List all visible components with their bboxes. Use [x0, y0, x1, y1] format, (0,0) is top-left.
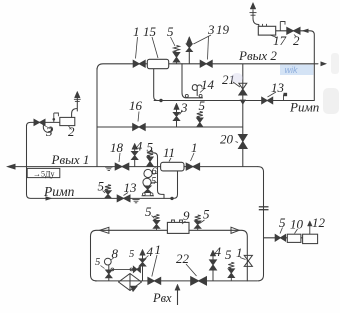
- label 5 leader: [200, 220, 205, 224]
- relief valve 5 left of meter: [154, 215, 160, 221]
- relief valve 5 middle: [197, 112, 203, 118]
- label 8 leader: [111, 258, 114, 261]
- filter: [119, 274, 142, 291]
- wire regulator 11 drop: [174, 171, 178, 198]
- svg-text:5: 5: [151, 176, 156, 187]
- drain after valve 13: [132, 200, 139, 203]
- svg-text:wik: wik: [285, 65, 298, 75]
- valve 3 top left: [34, 119, 45, 125]
- label 10 leader: [295, 229, 298, 234]
- node junction lower Rimp: [170, 197, 173, 200]
- svg-text:8: 8: [112, 246, 119, 261]
- svg-text:18: 18: [110, 140, 124, 155]
- svg-text:Рвх: Рвх: [152, 291, 172, 305]
- device 12: [303, 234, 318, 243]
- label 22 leader: [186, 264, 197, 276]
- gauge 8 stem: [108, 265, 110, 281]
- three-way cock: [53, 113, 55, 122]
- valve 1 top inlet: [133, 60, 145, 67]
- relief valve 5 on Pvyh1: [147, 151, 153, 157]
- valve 22: [191, 277, 207, 285]
- svg-text:4: 4: [215, 244, 222, 259]
- svg-text:5: 5: [147, 140, 154, 155]
- svg-text:1: 1: [155, 242, 162, 257]
- pressure gauge 2 box: [60, 117, 75, 125]
- label 9 leader: [182, 221, 186, 224]
- svg-text:2: 2: [68, 124, 75, 139]
- node flow arrow into valve 2: [302, 29, 309, 33]
- wire right drop from Pvyh1 line: [258, 167, 264, 281]
- gauge 8 valve: [106, 270, 112, 278]
- svg-text:1: 1: [236, 245, 243, 260]
- wire manometer branch: [27, 122, 61, 126]
- label 5 leader: [171, 37, 176, 46]
- relief valve 5 lower Rimp: [105, 185, 111, 191]
- wire vertical valve21-20 branch: [242, 64, 244, 167]
- svg-text:20: 20: [220, 132, 234, 147]
- svg-text:5: 5: [98, 179, 105, 194]
- valve 1 middle: [186, 163, 199, 170]
- inlet Rvx arrow: [177, 289, 179, 306]
- wire Pvyh2 main line: [97, 64, 318, 70]
- relief valve 5 right of meter: [195, 215, 201, 221]
- wire bottom loop left vertical and top line: [91, 230, 248, 281]
- svg-text:Рвых 1: Рвых 1: [51, 152, 90, 167]
- svg-text:5: 5: [203, 207, 210, 222]
- svg-text:17: 17: [273, 33, 287, 48]
- label 20 leader: [236, 142, 239, 143]
- svg-text:5: 5: [167, 24, 174, 39]
- wire vertical regulator-15 drop: [154, 69, 158, 101]
- impulse down from relief to gauges: [152, 153, 164, 199]
- label 2 leader: [294, 35, 297, 38]
- label 1 leader: [136, 37, 138, 59]
- wire vent to device 17: [253, 19, 259, 27]
- label 16 leader: [138, 112, 139, 122]
- device 10: [287, 234, 301, 242]
- svg-text:Римп: Римп: [289, 100, 319, 115]
- gauge cluster unions: [142, 193, 145, 196]
- svg-text:5: 5: [199, 98, 206, 113]
- vent stack top right: [252, 10, 254, 19]
- label 1 leader: [191, 153, 195, 161]
- svg-text:16: 16: [129, 98, 143, 113]
- wire Pvyh1 main line: [10, 166, 258, 168]
- vent valve 3 middle: [176, 109, 178, 127]
- label 17 leader: [270, 35, 277, 38]
- label 2 leader: [69, 126, 72, 130]
- node Pvyh1 outlet arrow left: [6, 164, 16, 170]
- vent valve 4 on Pvyh1: [134, 149, 136, 167]
- svg-text:4: 4: [136, 139, 143, 154]
- label 3 leader middle: [180, 111, 183, 115]
- label 14 leader: [200, 88, 205, 93]
- flow tag box 5Du: [27, 168, 60, 177]
- relief valve 5 on Pvyh2: [174, 46, 180, 53]
- label 13 leader: [124, 193, 129, 196]
- label 3 leader: [43, 125, 51, 129]
- insulating joint: [259, 206, 269, 208]
- svg-text:3: 3: [207, 22, 215, 37]
- valve 1 on right drop: [244, 255, 252, 266]
- svg-text:5: 5: [95, 257, 100, 268]
- svg-text:5: 5: [225, 247, 232, 262]
- node flow arrow on lower Rimp: [46, 196, 53, 200]
- label 5 leader: [280, 228, 283, 234]
- label 1 leader: [240, 258, 246, 260]
- valve 2: [287, 27, 300, 34]
- valve 20: [238, 135, 247, 149]
- valve 16: [133, 124, 146, 131]
- svg-text:1: 1: [133, 24, 140, 39]
- node flow arrow right on bypass: [231, 227, 239, 233]
- meter 9: [167, 222, 189, 233]
- vent stack bottom: [142, 255, 144, 281]
- valve 13 left: [117, 195, 130, 202]
- gauge 5 lower: [143, 178, 151, 186]
- svg-text:1: 1: [191, 140, 198, 155]
- wire vertical from Pvyh2 corner down to Pvyh1 line: [96, 68, 98, 167]
- node Pvyh2 outlet arrow: [321, 61, 328, 66]
- node flow arrow left on bypass: [100, 227, 109, 233]
- svg-text:→5Ду: →5Ду: [33, 169, 54, 178]
- wire bypass line through valve 16: [97, 126, 243, 128]
- device 14 siphon curl: [192, 85, 202, 96]
- impulse tube to device 14: [182, 64, 203, 98]
- label 1 leader: [152, 255, 157, 277]
- vent line with valve 3: [188, 48, 190, 64]
- node junction on Rimp upper: [159, 99, 162, 102]
- valve 5 on branch: [275, 235, 285, 242]
- regulator 11: [161, 162, 184, 171]
- label 18 leader: [119, 153, 120, 162]
- sampling cock after valve 13: [283, 95, 285, 101]
- svg-text:3: 3: [180, 100, 188, 115]
- label 3 leader: [194, 35, 212, 44]
- svg-text:22: 22: [176, 251, 190, 266]
- vent head ticks: [74, 98, 81, 100]
- regulator 15: [147, 59, 168, 68]
- label 21 leader: [233, 82, 240, 87]
- watermark ghost near valve 21: [231, 73, 243, 83]
- label 5 leader: [152, 216, 155, 219]
- wire valve2 line top right: [276, 31, 315, 101]
- relief valve 5 bottom: [228, 262, 234, 268]
- svg-text:19: 19: [216, 22, 230, 37]
- valve 1 bottom: [148, 278, 161, 285]
- svg-text:13: 13: [271, 80, 285, 95]
- svg-text:10: 10: [290, 217, 304, 232]
- svg-text:2: 2: [293, 33, 300, 48]
- svg-text:9: 9: [183, 208, 190, 223]
- vent valve 3 hourglass: [186, 44, 192, 52]
- label 15 leader: [152, 37, 158, 58]
- svg-text:5: 5: [129, 249, 134, 260]
- svg-text:4: 4: [147, 244, 154, 259]
- wire right impulse line Rimp upper: [154, 100, 315, 102]
- cock above valve 2: [279, 22, 281, 31]
- valve 13 right: [262, 97, 273, 104]
- svg-text:Рвых 2: Рвых 2: [238, 48, 277, 63]
- branch to instruments 10 12: [264, 237, 303, 239]
- siphon curl below: [43, 125, 52, 132]
- svg-text:14: 14: [201, 77, 215, 92]
- label 19 leader: [208, 36, 209, 60]
- watermark box: [280, 65, 313, 75]
- label 13 leader: [268, 92, 277, 97]
- label 5 leader: [101, 266, 105, 269]
- gauge 6: [144, 169, 152, 177]
- vent valve 4 bottom: [212, 256, 214, 281]
- svg-text:13: 13: [124, 180, 138, 195]
- gauge cluster hourglass: [144, 186, 151, 193]
- node junction flow arrow at Rimp: [240, 100, 246, 105]
- wire left impulse line Rimp lower: [27, 125, 174, 198]
- svg-text:12: 12: [312, 215, 326, 230]
- valve 18: [115, 163, 129, 170]
- wire bottom inlet line: [95, 280, 257, 282]
- svg-text:15: 15: [143, 24, 157, 39]
- device 17: [258, 26, 275, 35]
- svg-text:11: 11: [163, 145, 175, 160]
- svg-text:5: 5: [145, 204, 152, 219]
- svg-text:Римп: Римп: [43, 184, 75, 199]
- svg-text:3: 3: [45, 124, 53, 139]
- device 14 union circles: [185, 94, 188, 97]
- watermark smudge right: [323, 88, 339, 114]
- device 12 arrow: [309, 225, 311, 234]
- label 4 leader: [145, 256, 149, 260]
- svg-text:5: 5: [279, 215, 286, 230]
- purge impulse line: [112, 268, 133, 270]
- gauge 8: [104, 258, 111, 265]
- drain left of valve 18: [105, 167, 112, 170]
- needle valve on purge line: [133, 267, 140, 273]
- vent from gauge 2: [72, 97, 78, 117]
- valve 21: [239, 83, 247, 95]
- label 11 leader: [169, 158, 171, 162]
- label 5 leader: [103, 191, 106, 194]
- valve 19: [200, 60, 212, 67]
